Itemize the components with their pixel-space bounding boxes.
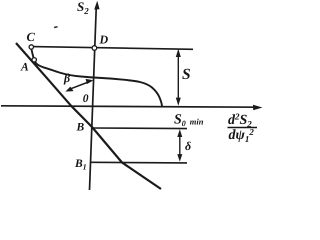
horizontal axis — [1, 105, 263, 110]
beta angle arc with arrowheads — [65, 79, 93, 92]
line at B level — [93, 127, 188, 130]
line at B1 level — [91, 161, 187, 164]
axis label d2S2/dpsi1^2 fraction — [228, 112, 258, 145]
node C — [29, 45, 33, 49]
svg-text:B: B — [76, 122, 85, 134]
node A — [32, 58, 36, 62]
dimension delta double arrow — [177, 129, 182, 162]
main curve from C through A down to axis — [31, 49, 162, 107]
dimension S double arrow — [176, 49, 181, 106]
vertical axis S2 — [90, 1, 100, 190]
diagonal tangent line through A and B — [16, 43, 161, 189]
svg-text:0: 0 — [83, 93, 89, 105]
svg-text:A: A — [20, 62, 29, 74]
line C-D (upper horizontal reference line) — [32, 47, 193, 50]
svg-text:S2: S2 — [77, 0, 89, 16]
node D — [92, 46, 97, 51]
svg-text:dψ12: dψ12 — [229, 127, 255, 144]
svg-text:D: D — [99, 33, 109, 47]
svg-text:B1: B1 — [74, 158, 87, 172]
svg-text:C: C — [27, 30, 36, 44]
svg-text:S: S — [182, 66, 191, 83]
svg-text:δ: δ — [185, 139, 191, 153]
small speck artifact — [54, 26, 58, 28]
svg-text:β: β — [63, 71, 71, 85]
svg-text:S0min: S0min — [174, 113, 204, 129]
